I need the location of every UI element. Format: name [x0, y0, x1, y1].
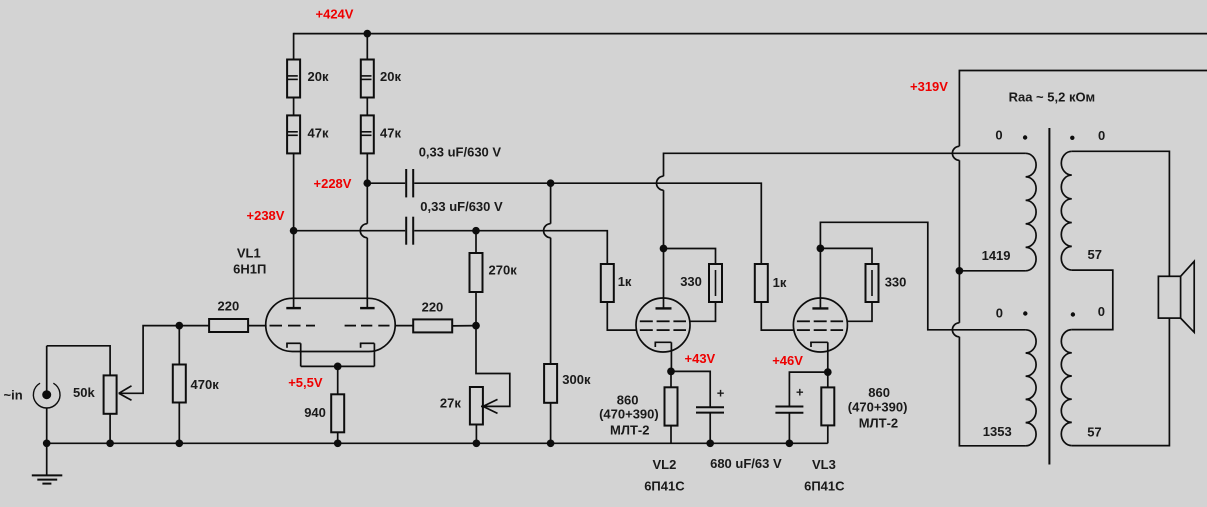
tube VL1 envelope: [266, 298, 396, 351]
node VL1 cathode junction: [334, 363, 342, 371]
speaker: [1158, 261, 1194, 332]
label 20k right: [380, 69, 401, 84]
node VL3 cathode junction: [824, 368, 832, 376]
svg-text:0: 0: [996, 306, 1003, 321]
tube VL2 control grid dashes: [640, 329, 686, 331]
tube VL2 cathode: [655, 342, 672, 371]
label 470k: [191, 377, 220, 392]
transformer secondary winding 57 lower: [1061, 330, 1072, 446]
transformer primary 1 phase dot: [1023, 135, 1027, 139]
tube VL1 left grid dashes: [270, 325, 316, 327]
potentiometer 50k: [104, 375, 117, 413]
wire 300k column lower: [550, 238, 552, 364]
label C2 value 0,33 uF/630 V: [420, 199, 503, 214]
tube VL3 envelope: [793, 298, 847, 352]
label cap VL2 plus: [717, 385, 725, 400]
svg-text:МЛТ-2: МЛТ-2: [859, 416, 898, 431]
svg-text:0,33 uF/630 V: 0,33 uF/630 V: [420, 199, 503, 214]
label 50k: [73, 385, 95, 400]
label 20k left: [308, 69, 329, 84]
ground symbol: [32, 443, 63, 483]
wire 1k VL2 to grid: [607, 302, 636, 330]
wire grid junction to 27k wiper: [476, 326, 510, 407]
node left anode junction +238V: [290, 227, 298, 235]
wire VL3 cathode to 860: [827, 372, 829, 387]
transformer primary winding 1419: [1026, 153, 1037, 270]
label 220 right: [422, 300, 444, 315]
wire cathode to 940: [337, 366, 339, 394]
resistor 860 VL2: [665, 387, 678, 425]
wire secondary series link: [1072, 270, 1113, 330]
wire 330 VL2 to screen: [690, 302, 716, 321]
wire VL1 cathode link: [301, 365, 375, 367]
svg-text:6Н1П: 6Н1П: [233, 261, 266, 276]
wire hop +319V over primary 2 wire: [952, 323, 959, 337]
wire right anode lead upper: [366, 183, 368, 224]
node VL3 anode junction: [817, 245, 825, 253]
label primary 1 terminal 0: [995, 128, 1002, 143]
wire between 20k and 47k right: [366, 97, 368, 115]
svg-text:0: 0: [1098, 128, 1105, 143]
svg-text:1к: 1к: [773, 275, 787, 290]
tube VL3 screen grid dashes: [797, 320, 843, 322]
resistor 330 VL3: [866, 264, 879, 302]
tube VL3 cathode: [810, 342, 828, 372]
resistor 270k: [470, 253, 483, 292]
wire input shield down: [46, 408, 48, 443]
svg-text:1419: 1419: [982, 248, 1011, 263]
resistor 300k: [544, 364, 557, 403]
node VL2 anode junction: [660, 245, 668, 253]
wire VL2 cathode to cap: [671, 371, 710, 407]
wire VL3 anode to primary 2: [820, 222, 1025, 329]
wire VL2 anode lead: [663, 249, 665, 309]
wire hop +319V over primary 1 wire: [952, 146, 959, 160]
node rail 300k: [547, 439, 555, 447]
tube VL1 right cathode: [360, 343, 375, 366]
wire VL1 right grid to 220: [395, 325, 413, 327]
wire left anode lead: [293, 231, 295, 308]
wire 860 VL2 to rail: [670, 426, 672, 444]
svg-text:300к: 300к: [562, 372, 591, 387]
label VL3: [812, 457, 836, 472]
node rail cap VL2: [706, 439, 714, 447]
label primary 2 terminal 0: [996, 306, 1003, 321]
svg-text:6П41С: 6П41С: [804, 479, 845, 494]
tube VL1 right grid dashes: [345, 325, 390, 327]
potentiometer 27k wiper arrow: [483, 399, 498, 413]
label 330 VL3: [885, 274, 907, 289]
label +43V: [685, 351, 716, 366]
label 300k: [562, 372, 591, 387]
svg-text:57: 57: [1088, 247, 1102, 262]
transformer primary 2 phase dot: [1023, 311, 1027, 315]
label 860 VL3 type MLT-2: [859, 416, 898, 431]
resistor 47k right: [361, 115, 374, 153]
svg-text:330: 330: [680, 274, 702, 289]
capacitor 680uF VL3: [775, 407, 803, 413]
label 1k VL3: [773, 275, 787, 290]
label 270k: [489, 263, 518, 278]
label VL2: [653, 457, 677, 472]
wire right anode lead lower: [366, 238, 368, 308]
wire 47k right to node: [366, 153, 368, 183]
resistor 860 VL3: [821, 387, 834, 425]
wire node to 470k: [178, 326, 180, 365]
svg-text:+: +: [717, 385, 725, 400]
label 940: [304, 405, 326, 420]
node rail 27k: [473, 439, 481, 447]
transformer primary winding 1353: [1026, 330, 1037, 446]
svg-text:50k: 50k: [73, 385, 95, 400]
wire hop right anode over lower wire: [360, 224, 367, 238]
svg-text:270к: 270к: [489, 263, 518, 278]
svg-text:(470+390): (470+390): [599, 406, 659, 421]
label 330 VL2: [680, 274, 702, 289]
wire node to 220 left: [179, 325, 209, 327]
wire 50k bottom to rail: [109, 414, 111, 444]
label 47k left: [308, 126, 329, 141]
transformer secondary winding 57 upper: [1061, 151, 1072, 270]
wire 220 left to VL1 grid: [248, 325, 267, 327]
node VL2 cathode junction: [667, 368, 675, 376]
label 860 VL3: [868, 385, 890, 400]
wire junction to VL3 grid resistor: [551, 183, 762, 264]
wire cap VL2 to rail: [709, 413, 711, 444]
label 57 lower: [1087, 424, 1101, 439]
svg-text:27к: 27к: [440, 396, 461, 411]
tube VL3 control grid dashes: [797, 329, 843, 331]
label C1 value 0,33 uF/630 V: [419, 145, 502, 160]
label VL1 type 6N1P: [233, 261, 266, 276]
svg-text:(470+390): (470+390): [848, 400, 908, 415]
svg-text:940: 940: [304, 405, 326, 420]
node rail 50k: [106, 439, 114, 447]
wire 860 VL3 to rail: [827, 425, 829, 443]
wire junction down to 300k upper: [550, 183, 552, 224]
capacitor 680uF VL2: [696, 407, 724, 412]
wire 330 VL3 to screen: [847, 302, 872, 321]
tube VL1 right anode: [360, 307, 375, 309]
wire VL2 anode node to 330: [664, 249, 716, 265]
svg-text:0: 0: [995, 128, 1002, 143]
svg-text:+424V: +424V: [316, 7, 354, 22]
node C1 output junction: [547, 179, 555, 187]
svg-text:680 uF/63 V: 680 uF/63 V: [710, 456, 782, 471]
svg-text:1353: 1353: [983, 424, 1012, 439]
wire +319V to primary 2 bottom: [959, 337, 1025, 446]
svg-text:47к: 47к: [308, 126, 329, 141]
tube VL1 left anode: [286, 307, 301, 309]
svg-text:220: 220: [422, 300, 444, 315]
label +424V: [316, 7, 354, 22]
resistor 1k VL3: [755, 264, 768, 302]
wire 270k to grid junction: [475, 292, 477, 326]
svg-text:0: 0: [1098, 304, 1105, 319]
svg-text:20к: 20к: [380, 69, 401, 84]
wire input top to pot: [47, 346, 110, 376]
wire center tap to primary 1 bottom: [959, 270, 1025, 272]
tube VL2 screen grid dashes: [640, 320, 686, 322]
wire VL3 anode lead: [819, 248, 821, 308]
tube VL1 left cathode: [286, 343, 301, 366]
node grid2 junction: [472, 322, 480, 330]
capacitor C2 0,33uF: [406, 217, 413, 245]
svg-text:+238V: +238V: [247, 208, 285, 223]
label 680 uF/63 V: [710, 456, 782, 471]
node rail 940: [334, 439, 342, 447]
svg-text:1к: 1к: [618, 274, 632, 289]
transformer secondary 2 phase dot: [1071, 312, 1075, 316]
resistor 220 left: [209, 319, 248, 332]
wire VL3 anode node to 330: [820, 248, 872, 264]
label +5,5V: [288, 375, 323, 390]
node transformer center tap: [956, 267, 964, 275]
label Raa: [1009, 89, 1096, 104]
label VL2 type 6P41S: [644, 479, 685, 494]
svg-text:VL1: VL1: [237, 246, 261, 261]
svg-text:~in: ~in: [4, 388, 23, 403]
node +424V junction: [363, 30, 371, 38]
tube VL2 anode: [656, 307, 672, 309]
label 1353: [983, 424, 1012, 439]
wire secondary bottom to speaker: [1072, 318, 1170, 446]
node C2 output junction: [472, 227, 480, 235]
capacitor C1 0,33uF: [406, 169, 413, 197]
svg-text:0,33 uF/630 V: 0,33 uF/630 V: [419, 145, 502, 160]
resistor 20k right: [361, 60, 374, 98]
wire +238V node to C2: [294, 230, 406, 232]
node rail cap VL3: [786, 439, 794, 447]
svg-text:+319V: +319V: [910, 79, 948, 94]
label 860 VL2 type MLT-2: [610, 422, 649, 437]
node right anode junction: [363, 179, 371, 187]
label 860 VL2: [617, 392, 639, 407]
label 47k right: [380, 126, 401, 141]
wire C1 to junction: [414, 182, 550, 184]
label secondary 1 terminal 0: [1098, 128, 1105, 143]
wire 940 to rail: [337, 432, 339, 443]
wire 1k VL3 to grid: [761, 302, 793, 330]
wire input pin up: [46, 346, 48, 395]
tube VL3 anode: [812, 307, 828, 309]
wire VL2 cathode to 860: [670, 371, 672, 387]
svg-text:МЛТ-2: МЛТ-2: [610, 422, 649, 437]
wire hop VL2 riser over C1 wire: [657, 176, 664, 190]
wire +319V top: [959, 71, 1207, 147]
wire node to C1: [367, 182, 405, 184]
label 1419: [982, 248, 1011, 263]
resistor 330 VL2: [709, 264, 722, 302]
wire node to 270k: [475, 231, 477, 253]
svg-text:57: 57: [1087, 424, 1101, 439]
svg-text:+: +: [796, 385, 804, 400]
wire C2 to 270k node: [414, 230, 476, 232]
resistor 470k: [173, 365, 186, 403]
label cap VL3 plus: [796, 385, 804, 400]
label +228V: [314, 176, 352, 191]
svg-text:Raa ~ 5,2 кОм: Raa ~ 5,2 кОм: [1009, 89, 1096, 104]
wire +424V top rail: [294, 33, 1207, 35]
node rail 470k: [175, 439, 183, 447]
resistor 940: [331, 394, 344, 432]
connector ~in jack: [33, 383, 60, 408]
resistor 20k left: [287, 60, 300, 98]
resistor 1k VL2: [601, 264, 614, 302]
svg-text:VL3: VL3: [812, 457, 836, 472]
label +46V: [772, 353, 803, 368]
wire VL2 anode riser: [663, 190, 665, 248]
resistor 220 right: [413, 319, 452, 332]
potentiometer 27k: [470, 387, 483, 425]
wire between 20k and 47k left: [293, 97, 295, 115]
svg-text:20к: 20к: [308, 69, 329, 84]
wire VL2 riser to primary 1: [664, 153, 1026, 176]
svg-text:220: 220: [218, 298, 240, 313]
wire +319V lower: [958, 271, 960, 323]
svg-text:+46V: +46V: [772, 353, 803, 368]
tube VL2 envelope: [636, 298, 690, 352]
wire hop 300k column over C2 wire: [544, 224, 551, 238]
wire secondary top to speaker: [1072, 151, 1170, 276]
label 860 VL3 detail: [848, 400, 908, 415]
label +319V: [910, 79, 948, 94]
svg-text:860: 860: [617, 392, 639, 407]
label +238V: [247, 208, 285, 223]
svg-text:860: 860: [868, 385, 890, 400]
svg-text:+228V: +228V: [314, 176, 352, 191]
resistor 47k left: [287, 115, 300, 153]
label ~in: [4, 388, 23, 403]
label 57 upper: [1088, 247, 1102, 262]
label 1k VL2: [618, 274, 632, 289]
node rail input: [43, 439, 51, 447]
wire left anode column drop from rail: [293, 33, 295, 60]
svg-text:+43V: +43V: [685, 351, 716, 366]
label secondary 2 terminal 0: [1098, 304, 1105, 319]
wire 300k to ground rail: [550, 403, 552, 444]
label 860 VL2 detail: [599, 406, 659, 421]
label 27k: [440, 396, 461, 411]
wire cap VL3 to rail: [788, 413, 790, 444]
wire 220 right to grid2 node: [452, 325, 476, 327]
svg-text:330: 330: [885, 274, 907, 289]
wire 470k to rail: [178, 403, 180, 444]
wire ground rail: [47, 442, 828, 444]
svg-text:+5,5V: +5,5V: [288, 375, 323, 390]
wire 50k wiper to grid node: [119, 326, 180, 394]
svg-text:470к: 470к: [191, 377, 220, 392]
wire VL3 cathode to cap: [789, 372, 827, 406]
label VL3 type 6P41S: [804, 479, 845, 494]
svg-text:6П41С: 6П41С: [644, 479, 685, 494]
transformer secondary 1 phase dot: [1070, 136, 1074, 140]
transformer core: [1048, 128, 1050, 465]
wire 27k to ground rail: [475, 425, 477, 444]
potentiometer 50k wiper arrow: [119, 386, 132, 401]
label VL1: [237, 246, 261, 261]
wire right anode column drop from rail: [366, 33, 368, 60]
wire C2 junction to VL2 grid resistor: [476, 231, 607, 264]
wire 47k left to +238V node: [293, 153, 295, 230]
svg-text:47к: 47к: [380, 126, 401, 141]
svg-text:VL2: VL2: [653, 457, 677, 472]
label 220 left: [218, 298, 240, 313]
node grid1 junction: [175, 322, 183, 330]
wire +319V middle: [958, 160, 960, 270]
